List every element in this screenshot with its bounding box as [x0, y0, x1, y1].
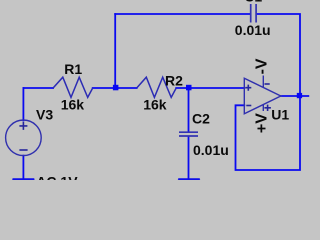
svg-text:16k: 16k: [61, 96, 85, 112]
svg-text:AC 1V: AC 1V: [36, 173, 78, 180]
svg-text:R1: R1: [64, 61, 82, 77]
svg-text:C1: C1: [244, 0, 262, 5]
svg-text:0.01u: 0.01u: [235, 22, 271, 38]
svg-text:-V: -V: [254, 58, 271, 74]
svg-text:U1: U1: [271, 107, 289, 123]
svg-text:V3: V3: [36, 107, 53, 123]
svg-text:0.01u: 0.01u: [193, 142, 229, 158]
svg-text:C2: C2: [192, 111, 210, 127]
svg-text:16k: 16k: [143, 96, 167, 112]
svg-text:R2: R2: [165, 72, 183, 88]
svg-text:+V: +V: [254, 113, 271, 133]
